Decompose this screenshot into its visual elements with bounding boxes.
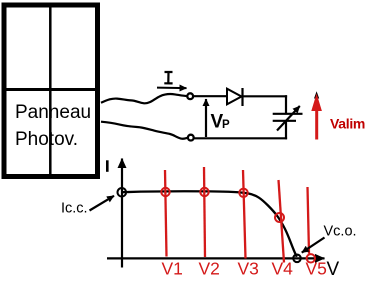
svg-text:V: V bbox=[327, 259, 340, 280]
svg-text:Ic.c.: Ic.c. bbox=[61, 201, 88, 217]
svg-text:V2: V2 bbox=[199, 259, 220, 279]
svg-text:Valim: Valim bbox=[330, 116, 365, 132]
svg-text:Vc.o.: Vc.o. bbox=[324, 224, 357, 240]
svg-text:V1: V1 bbox=[162, 259, 183, 279]
svg-text:V5: V5 bbox=[306, 259, 327, 279]
svg-text:V3: V3 bbox=[238, 259, 259, 279]
svg-text:V4: V4 bbox=[272, 259, 294, 279]
svg-text:P: P bbox=[222, 119, 230, 131]
